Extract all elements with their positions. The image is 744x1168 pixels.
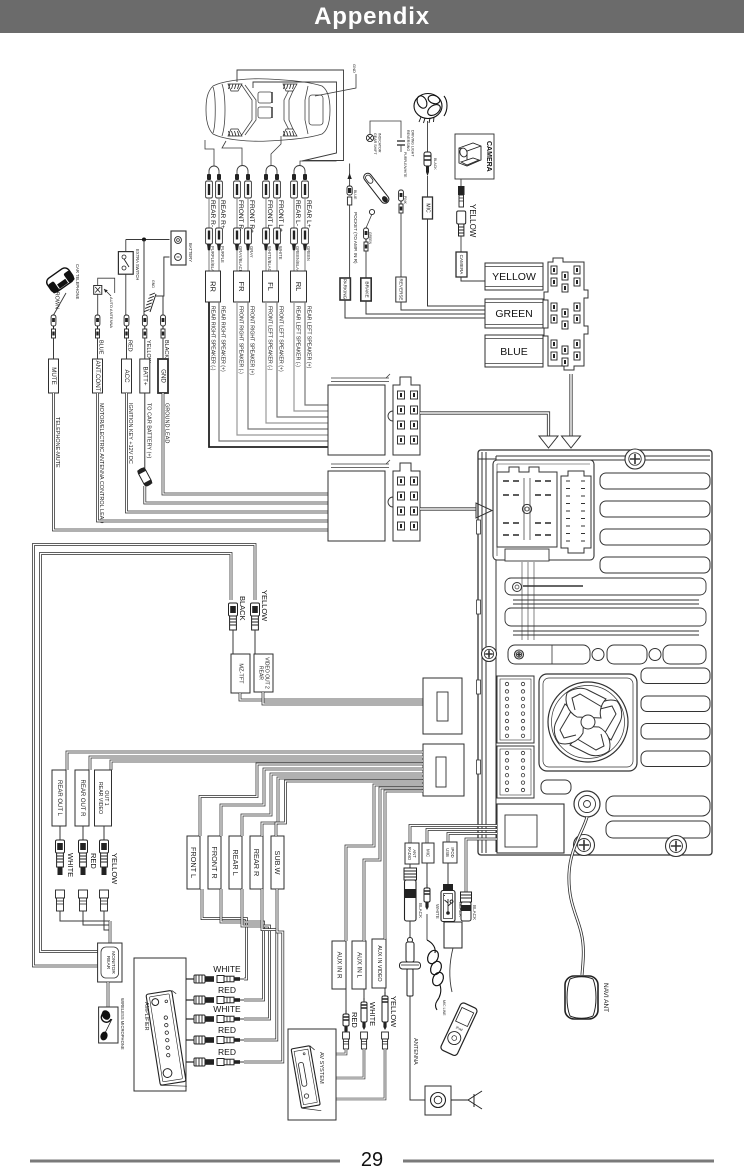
wires to rear monitor xyxy=(60,911,110,930)
iPod xyxy=(450,948,453,992)
svg-text:PURPLE: PURPLE xyxy=(220,246,225,263)
svg-text:MONITOR: MONITOR xyxy=(110,951,116,974)
svg-text:ANTENNA: ANTENNA xyxy=(412,1038,418,1065)
interior mirror with microphone xyxy=(414,94,447,124)
ISO connector block 2 xyxy=(328,471,385,541)
svg-text:BLACK: BLACK xyxy=(433,158,437,170)
svg-text:AMPLIFIER: AMPLIFIER xyxy=(143,1002,149,1031)
svg-text:FRONT RIGHT SPEAKER (+): FRONT RIGHT SPEAKER (+) xyxy=(249,306,255,375)
wire BRAKE lead xyxy=(364,228,369,239)
svg-text:BLACK: BLACK xyxy=(472,905,477,921)
svg-text:RED: RED xyxy=(127,340,133,352)
car antenna mast xyxy=(409,921,411,938)
wire car-to-pair links xyxy=(205,140,214,166)
mid fixing row xyxy=(508,645,706,664)
svg-text:CAMERA: CAMERA xyxy=(485,141,492,172)
svg-text:RL: RL xyxy=(294,282,303,292)
svg-text:BLUE: BLUE xyxy=(98,340,104,355)
svg-text:GND: GND xyxy=(151,280,155,288)
svg-text:BLUE: BLUE xyxy=(353,190,357,200)
screw small mid xyxy=(515,650,524,659)
header bar xyxy=(0,0,744,33)
svg-text:OUT 1: OUT 1 xyxy=(103,790,109,805)
ISO socket A xyxy=(497,467,557,547)
svg-text:WHITE: WHITE xyxy=(66,853,75,877)
svg-text:REAR RIGHT SPEAKER (+): REAR RIGHT SPEAKER (+) xyxy=(220,306,226,372)
usb plug xyxy=(447,863,449,884)
speaker pair FL xyxy=(266,166,277,175)
wire brackets above car xyxy=(237,70,344,161)
svg-text:FRONT R: FRONT R xyxy=(210,846,219,878)
svg-text:RADIO: RADIO xyxy=(407,847,412,861)
svg-text:BROWN: BROWN xyxy=(54,288,60,309)
heatsink fins xyxy=(600,473,710,838)
gear shift indicator xyxy=(370,121,401,138)
svg-text:WHITE: WHITE xyxy=(368,1002,377,1026)
svg-text:FRONT L-: FRONT L- xyxy=(266,200,273,230)
svg-text:FRONT RIGHT SPEAKER (-): FRONT RIGHT SPEAKER (-) xyxy=(238,306,244,374)
svg-text:MIC: MIC xyxy=(426,849,431,857)
screw left mid xyxy=(482,647,497,662)
svg-text:IPOD: IPOD xyxy=(450,847,455,857)
svg-text:BATTERY: BATTERY xyxy=(188,243,193,262)
svg-text:WHITE/BLACK: WHITE/BLACK xyxy=(267,246,272,275)
svg-text:AUX IN VIDEO: AUX IN VIDEO xyxy=(376,945,382,981)
svg-text:NAVI ANT: NAVI ANT xyxy=(602,983,609,1012)
svg-text:BATT+: BATT+ xyxy=(141,367,148,386)
car top view xyxy=(206,79,330,141)
ground symbol xyxy=(156,257,170,296)
svg-text:BLACK: BLACK xyxy=(163,340,169,358)
svg-text:GRAY: GRAY xyxy=(249,246,254,258)
screw bottom left xyxy=(574,835,595,856)
svg-text:REAR L+: REAR L+ xyxy=(305,200,312,228)
rear monitor box xyxy=(98,943,122,982)
svg-text:REVERSING: REVERSING xyxy=(406,130,410,151)
cooling fan xyxy=(539,674,637,771)
svg-text:YELLOW: YELLOW xyxy=(492,271,536,283)
svg-text:ANT: ANT xyxy=(412,849,417,858)
svg-text:YELLOW: YELLOW xyxy=(110,853,119,885)
svg-text:USB: USB xyxy=(445,848,450,857)
svg-text:WHITE: WHITE xyxy=(213,1004,241,1014)
svg-text:MZ-TFT: MZ-TFT xyxy=(238,663,244,684)
svg-text:YELLOW: YELLOW xyxy=(389,996,398,1028)
svg-text:FL: FL xyxy=(266,282,275,291)
svg-text:PINK: PINK xyxy=(403,196,407,205)
wire ACC lead xyxy=(124,315,129,326)
wires aux from head unit xyxy=(346,785,423,941)
svg-text:REAR LEFT SPEAKER (+): REAR LEFT SPEAKER (+) xyxy=(306,306,312,369)
footer page number xyxy=(30,1160,340,1163)
wire block2 to head unit xyxy=(420,507,476,510)
svg-text:YELLOW: YELLOW xyxy=(468,204,477,238)
svg-text:ACC: ACC xyxy=(123,369,130,383)
svg-text:DRIVING LIGHT: DRIVING LIGHT xyxy=(411,130,415,157)
svg-text:MIC: MIC xyxy=(425,203,431,213)
svg-text:RED: RED xyxy=(350,1012,359,1028)
svg-text:INDICATOR: INDICATOR xyxy=(378,133,382,153)
wire block1 to head unit xyxy=(420,413,549,436)
mini socket B xyxy=(561,471,591,553)
svg-text:FRONT R-: FRONT R- xyxy=(237,200,244,231)
svg-text:FRONT L+: FRONT L+ xyxy=(277,200,284,232)
svg-text:GND: GND xyxy=(352,64,357,73)
bottom connector block xyxy=(497,804,564,853)
head unit connector recess xyxy=(493,460,594,560)
svg-text:ANT.CONT: ANT.CONT xyxy=(94,361,101,392)
car telephone icon xyxy=(45,266,75,294)
head unit rear view xyxy=(478,450,712,855)
svg-text:VIDEO OUT 2: VIDEO OUT 2 xyxy=(263,657,269,689)
wire rear video out 2 loop xyxy=(41,554,232,952)
svg-text:WHITE: WHITE xyxy=(435,904,440,919)
wire BATT+ lead xyxy=(142,315,147,326)
svg-text:REVERSE: REVERSE xyxy=(399,279,404,301)
BLUE box xyxy=(485,335,543,367)
navi antenna puck xyxy=(565,976,598,1019)
small plate below fan xyxy=(541,780,571,794)
amplifier box xyxy=(134,958,186,1091)
Y/G/B connector xyxy=(544,258,588,370)
svg-text:FRONT LEFT SPEAKER (-): FRONT LEFT SPEAKER (-) xyxy=(267,306,273,371)
navi antenna jack xyxy=(574,791,600,817)
wire camera video xyxy=(460,179,462,186)
svg-text:MUTE: MUTE xyxy=(50,367,57,385)
wire mic lead xyxy=(427,121,429,152)
svg-text:CAR TELEPHONE: CAR TELEPHONE xyxy=(75,264,80,300)
svg-text:RR: RR xyxy=(209,281,218,292)
wire GND lead xyxy=(161,315,166,326)
wire REAR OUT R xyxy=(90,757,423,770)
wires head unit block to line-out boxes xyxy=(200,764,423,836)
svg-text:AV SYSTEM: AV SYSTEM xyxy=(318,1052,324,1084)
svg-text:BLUE: BLUE xyxy=(500,346,527,358)
wire MUTE lead xyxy=(51,315,56,326)
svg-text:REAR RIGHT SPEAKER (-): REAR RIGHT SPEAKER (-) xyxy=(210,306,216,371)
camera box xyxy=(455,134,494,179)
ISO plug 2 xyxy=(393,463,420,541)
wire ANT.CONT lead xyxy=(95,315,100,326)
wire MUTE lead xyxy=(54,293,67,315)
RCA plug rear video out 2 xyxy=(251,603,260,616)
svg-text:REAR R+: REAR R+ xyxy=(219,200,226,229)
wire PARKING lead xyxy=(349,164,351,187)
svg-text:PURPLE/WHITE: PURPLE/WHITE xyxy=(403,152,407,178)
fuse xyxy=(137,467,153,487)
extra switch xyxy=(118,252,133,275)
lower small connector xyxy=(423,744,464,796)
wires unit bottom leads xyxy=(410,826,497,844)
svg-text:REAR VIDEO: REAR VIDEO xyxy=(97,782,103,814)
svg-text:GEAR SHIFT: GEAR SHIFT xyxy=(373,133,377,155)
svg-text:SUB.W: SUB.W xyxy=(273,851,282,875)
RCA plug MZ-TFT xyxy=(229,603,238,616)
GREEN box xyxy=(485,299,543,328)
wires line-out boxes to amplifier xyxy=(202,889,247,979)
mic line plug xyxy=(426,863,428,888)
svg-text:REAR OUT R: REAR OUT R xyxy=(79,780,85,818)
svg-text:REAR L: REAR L xyxy=(231,849,240,875)
svg-text:RED: RED xyxy=(218,1047,236,1057)
wire REAR VIDEO OUT 1 xyxy=(111,761,423,770)
svg-text:REAR R-: REAR R- xyxy=(209,200,216,227)
wire battery feed xyxy=(126,239,170,241)
svg-text:YELLOW: YELLOW xyxy=(260,590,269,622)
aux plugs xyxy=(345,989,347,1010)
svg-text:GREEN: GREEN xyxy=(306,246,311,261)
speaker pair RL xyxy=(294,166,305,175)
svg-text:BRAKE: BRAKE xyxy=(364,281,370,297)
svg-text:MIC LINE: MIC LINE xyxy=(442,1000,446,1016)
svg-text:WHITE: WHITE xyxy=(213,964,241,974)
svg-text:WHITE: WHITE xyxy=(278,246,283,260)
svg-text:BLACK: BLACK xyxy=(238,596,247,621)
svg-text:AUX IN L: AUX IN L xyxy=(356,952,363,978)
speaker line-out boxes xyxy=(187,836,200,889)
svg-text:FRONT LEFT SPEAKER (+): FRONT LEFT SPEAKER (+) xyxy=(278,306,284,372)
screw bottom right xyxy=(666,836,687,857)
4th plug xyxy=(461,892,472,902)
upper small connector xyxy=(423,678,462,734)
wire REAR OUT L xyxy=(67,752,423,770)
svg-text:AUTO ANTENNA: AUTO ANTENNA xyxy=(109,297,114,328)
YELLOW box xyxy=(485,263,543,290)
svg-text:GREEN: GREEN xyxy=(368,232,372,245)
svg-text:BLACK: BLACK xyxy=(418,903,423,919)
svg-text:Appendix: Appendix xyxy=(314,3,430,30)
speaker pair RR xyxy=(209,166,219,174)
svg-text:TO CAR BATTERY (+): TO CAR BATTERY (+) xyxy=(145,403,151,459)
svg-text:REAR L-: REAR L- xyxy=(294,200,301,226)
svg-text:EXTRA SWITCH: EXTRA SWITCH xyxy=(135,249,140,280)
antenna base xyxy=(425,1086,451,1115)
wire connector to head unit xyxy=(569,374,572,436)
aux input boxes xyxy=(332,941,346,989)
svg-text:REAR LEFT SPEAKER (-): REAR LEFT SPEAKER (-) xyxy=(295,306,301,367)
screw top xyxy=(625,449,645,469)
AV system box xyxy=(288,1029,336,1120)
hand brake lever xyxy=(362,172,390,205)
svg-text:FRONT L: FRONT L xyxy=(189,847,198,878)
svg-text:RED: RED xyxy=(89,853,98,869)
ISO connector block 1 xyxy=(328,385,385,455)
svg-text:29: 29 xyxy=(361,1149,383,1168)
svg-text:GRAY/BLACK: GRAY/BLACK xyxy=(238,246,243,273)
svg-text:REAR: REAR xyxy=(258,666,264,680)
heatsink grooves xyxy=(505,562,706,640)
wireless microphone xyxy=(107,982,110,1007)
svg-text:REAR OUT L: REAR OUT L xyxy=(56,780,62,817)
svg-text:RED: RED xyxy=(218,985,236,995)
svg-text:GREEN: GREEN xyxy=(495,308,532,320)
svg-text:GND: GND xyxy=(160,369,167,383)
pin header blocks xyxy=(497,676,534,743)
navi antenna cable xyxy=(569,817,587,975)
svg-text:WIRELESS MICROPHONE: WIRELESS MICROPHONE xyxy=(120,998,125,1050)
speaker pair FR xyxy=(237,166,248,175)
ISO plug 1 xyxy=(393,377,420,455)
microphone line coil xyxy=(426,914,428,940)
svg-text:PARKING: PARKING xyxy=(343,279,348,300)
svg-text:CAMERA: CAMERA xyxy=(459,255,464,276)
svg-text:POCKET (TO AMP. IN R): POCKET (TO AMP. IN R) xyxy=(353,212,358,264)
reversing light symbol xyxy=(397,141,405,145)
svg-text:FR: FR xyxy=(237,282,246,293)
auto antenna xyxy=(94,286,102,295)
antenna plug xyxy=(409,864,411,868)
svg-text:AUX IN R: AUX IN R xyxy=(336,952,343,979)
svg-text:REAR R: REAR R xyxy=(252,849,261,877)
battery xyxy=(171,231,186,265)
wires to upper connector xyxy=(240,693,423,700)
svg-text:RED: RED xyxy=(218,1025,236,1035)
